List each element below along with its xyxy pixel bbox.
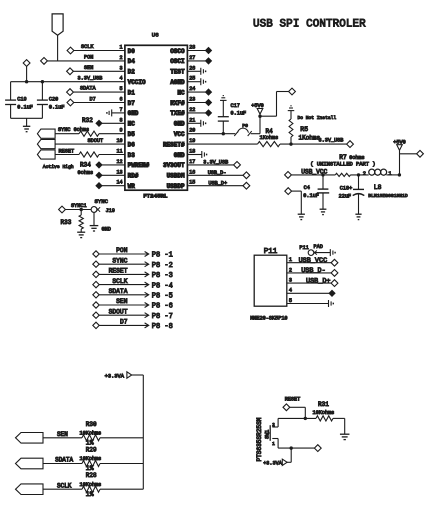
port SCLK flag — [16, 484, 44, 495]
svg-text:0.1uF: 0.1uF — [303, 193, 319, 199]
svg-text:10: 10 — [116, 138, 122, 144]
svg-text:RESET: RESET — [59, 148, 75, 154]
svg-text:P8 -5: P8 -5 — [152, 293, 173, 301]
ground shield — [298, 214, 305, 219]
svg-text:SYNC: SYNC — [95, 198, 109, 205]
svg-text:USB_D-: USB_D- — [301, 267, 325, 275]
svg-text:USB_D+: USB_D+ — [306, 277, 330, 285]
switch SW1 — [256, 417, 278, 461]
svg-text:R5: R5 — [300, 126, 308, 133]
svg-text:13: 13 — [116, 169, 122, 175]
svg-text:SDATA: SDATA — [80, 86, 96, 92]
port SDOUT flag — [37, 138, 103, 149]
resistor R34 — [55, 152, 125, 176]
wire RESET to R31 — [290, 407, 307, 420]
svg-text:RESET: RESET — [285, 396, 301, 402]
wire pin 23 RXF# — [187, 100, 211, 106]
inductor L8 — [363, 169, 408, 199]
ground pin 21 — [187, 120, 205, 127]
svg-text:0.1uF: 0.1uF — [49, 105, 65, 111]
resistor R28 — [43, 472, 143, 498]
svg-text:D4: D4 — [128, 58, 136, 65]
node pin16 USB_D- — [243, 172, 250, 179]
svg-text:26: 26 — [189, 65, 195, 71]
svg-text:20: 20 — [189, 128, 195, 134]
svg-text:1Kohms: 1Kohms — [260, 135, 279, 141]
U6 right pin names — [163, 48, 185, 190]
wire pin 27 OSCI — [187, 58, 211, 64]
svg-text:23: 23 — [189, 97, 195, 103]
svg-text:4: 4 — [120, 76, 123, 82]
node pin17 3.3V_USB — [234, 162, 241, 169]
svg-text:SEN: SEN — [116, 298, 128, 305]
wire SW1 bottom — [278, 446, 315, 462]
svg-text:NC: NC — [128, 121, 136, 128]
svg-text:GND: GND — [102, 227, 111, 233]
ground pin 7 — [107, 109, 125, 116]
svg-text:3.3V_USB: 3.3V_USB — [203, 160, 228, 166]
svg-text:SDOUT: SDOUT — [109, 308, 128, 315]
svg-text:P8 -3: P8 -3 — [152, 272, 173, 280]
svg-text:U6: U6 — [152, 32, 159, 39]
node +5V0 offpage — [289, 88, 296, 95]
resistor R30 — [43, 421, 143, 447]
node SEN — [67, 68, 74, 75]
wire SEN to pin 3 — [73, 65, 125, 71]
wire P11 pin 5 ground — [287, 300, 334, 307]
port SDATA flag — [16, 458, 44, 469]
svg-text:C20: C20 — [49, 97, 58, 103]
power +5V0 — [251, 103, 263, 114]
node pin15 USB_D+ — [243, 182, 250, 189]
wire D7 to pin 6 — [74, 97, 125, 103]
node D7 — [67, 99, 74, 106]
capacitor C19 — [5, 82, 33, 119]
resistor R7 — [335, 154, 364, 176]
svg-text:FT245RL: FT245RL — [143, 193, 168, 200]
connector J19 — [91, 198, 115, 214]
node USB_VCC — [331, 259, 338, 266]
svg-text:1%: 1% — [86, 491, 94, 498]
capacitor C20 — [37, 82, 65, 119]
U6 left pin numbers — [116, 45, 122, 186]
node 3.3V_USB pullup — [347, 141, 354, 148]
svg-text:R30: R30 — [86, 421, 97, 428]
wire J19 to ground — [93, 212, 95, 225]
svg-text:USBDM: USBDM — [167, 173, 185, 180]
svg-text:P11: P11 — [299, 245, 308, 251]
svg-text:SDATA: SDATA — [109, 288, 128, 295]
svg-text:0ohms: 0ohms — [78, 170, 94, 176]
wire pin 12 — [96, 162, 125, 168]
svg-text:GND: GND — [128, 110, 139, 117]
wire RESET# pin 19 — [187, 137, 346, 145]
ground pin 18 — [187, 151, 206, 158]
capacitor C17 — [218, 100, 246, 133]
svg-text:22uF: 22uF — [339, 193, 351, 199]
svg-text:RESET#: RESET# — [163, 141, 185, 148]
svg-text:PTS635SR25SM: PTS635SR25SM — [256, 417, 263, 461]
ground J19 — [90, 226, 111, 233]
port SEN flag — [16, 433, 44, 444]
wire D7 to P8 -8 — [93, 319, 173, 332]
svg-text:R28: R28 — [86, 472, 97, 479]
svg-text:R32: R32 — [82, 117, 93, 124]
svg-text:P8 -2: P8 -2 — [152, 262, 173, 270]
svg-text:SCLK: SCLK — [112, 278, 127, 285]
wire SEN to P8 -6 — [93, 298, 173, 311]
node +5V0 right offpage — [417, 150, 424, 157]
node 3.3V_USB stub — [23, 60, 30, 82]
svg-text:J19: J19 — [106, 208, 115, 214]
svg-text:14: 14 — [116, 180, 122, 186]
resistor R33 — [61, 210, 84, 233]
svg-text:TEST: TEST — [170, 69, 185, 76]
node USB_D- — [331, 270, 338, 277]
svg-text:USB SPI CONTROLER: USB SPI CONTROLER — [253, 19, 366, 31]
wire SDATA to pin 5 — [73, 86, 125, 92]
port RESET flag — [37, 148, 74, 159]
wire cap bottom rail — [11, 118, 43, 126]
svg-text:VCCIO: VCCIO — [128, 79, 146, 86]
svg-text:2: 2 — [363, 171, 366, 177]
ground below R33 — [77, 232, 85, 237]
svg-text:USB_VCC: USB_VCC — [301, 168, 327, 175]
svg-text:D3: D3 — [128, 152, 136, 159]
ground above R5 — [288, 106, 295, 111]
svg-text:28: 28 — [189, 45, 195, 51]
svg-text:GND: GND — [174, 121, 185, 128]
wire SDOUT to P8 -7 — [93, 308, 173, 321]
power +5V0 right — [393, 139, 405, 175]
svg-text:2: 2 — [120, 55, 123, 61]
svg-text:Active High: Active High — [43, 164, 74, 170]
ground below C18 — [355, 214, 361, 219]
svg-text:USB_VCC: USB_VCC — [299, 257, 328, 265]
svg-text:9: 9 — [120, 128, 123, 134]
svg-text:21: 21 — [189, 117, 195, 123]
svg-text:6: 6 — [120, 97, 123, 103]
svg-text:SDOUT: SDOUT — [88, 138, 104, 144]
wire pin 15 USB_D+ — [187, 180, 243, 186]
node PON — [41, 58, 48, 65]
svg-text:+3.3VA: +3.3VA — [105, 374, 125, 380]
resistor R31 — [313, 401, 335, 421]
capacitor C18 — [339, 175, 365, 214]
svg-text:SCLK: SCLK — [81, 44, 94, 50]
svg-text:D2: D2 — [128, 69, 136, 76]
wire pin 17 3.3V_USB — [187, 160, 233, 166]
svg-text:PON: PON — [84, 54, 93, 60]
svg-text:RXF#: RXF# — [170, 100, 185, 107]
label Active High — [43, 164, 74, 170]
svg-text:D7: D7 — [120, 319, 128, 326]
svg-text:OSCI: OSCI — [170, 58, 185, 65]
IC U6 FT245RL body — [125, 32, 187, 200]
svg-text:R4: R4 — [266, 128, 274, 135]
svg-text:1Kohms: 1Kohms — [299, 135, 321, 142]
label Do Not Install — [298, 115, 337, 121]
svg-text:1: 1 — [272, 441, 275, 447]
resistor R5 — [289, 111, 320, 145]
svg-text:1: 1 — [388, 171, 391, 177]
svg-text:C19: C19 — [17, 97, 26, 103]
svg-text:D7: D7 — [90, 97, 96, 103]
wire R31 top line — [278, 418, 345, 434]
wire +5V0 right branch — [400, 153, 417, 155]
connector shield stack — [52, 14, 63, 61]
node shield stub — [285, 188, 292, 195]
svg-text:C4: C4 — [304, 185, 310, 191]
P11 pin numbers — [289, 257, 292, 304]
wire PON to pin 2 — [47, 54, 125, 61]
svg-text:10Kohms: 10Kohms — [313, 410, 335, 416]
wire pin 8 NC — [96, 120, 125, 126]
svg-text:PWREN#: PWREN# — [128, 162, 150, 169]
svg-text:D0: D0 — [128, 48, 136, 55]
svg-text:SEN: SEN — [57, 431, 68, 438]
svg-text:D7: D7 — [128, 100, 136, 107]
wire SDOUT to pin 10 — [55, 143, 125, 145]
svg-text:R29: R29 — [86, 447, 97, 454]
connector P11 body — [250, 248, 287, 321]
svg-text:P9: P9 — [242, 123, 248, 129]
wire RESET to P8 -3 — [93, 268, 173, 281]
title USB SPI CONTROLER — [253, 19, 366, 31]
wire pin 28 OSCO — [187, 48, 211, 54]
U6 left pin names — [128, 48, 150, 190]
node SCLK — [67, 47, 74, 54]
svg-text:15: 15 — [189, 180, 195, 186]
power +3.3VA sw — [263, 459, 287, 467]
svg-text:AGND: AGND — [170, 79, 185, 86]
ground below R31 — [340, 434, 350, 439]
svg-text:P8 -6: P8 -6 — [152, 303, 173, 311]
label uninstalled part — [310, 160, 375, 167]
svg-text:TXE#: TXE# — [170, 110, 185, 117]
svg-text:D5: D5 — [128, 131, 136, 138]
svg-text:12: 12 — [116, 159, 122, 165]
svg-text:10Kohms: 10Kohms — [80, 430, 102, 436]
svg-text:1: 1 — [120, 45, 123, 51]
svg-text:24: 24 — [189, 86, 195, 92]
svg-text:25: 25 — [189, 76, 195, 82]
svg-text:SDATA: SDATA — [55, 457, 73, 464]
svg-text:3.3V_USB: 3.3V_USB — [78, 75, 103, 81]
svg-text:P8 -8: P8 -8 — [152, 323, 173, 331]
wire +5V0 branch — [258, 92, 289, 118]
svg-text:MNE20-SK5P10: MNE20-SK5P10 — [250, 316, 287, 322]
svg-text:10Kohms: 10Kohms — [80, 456, 102, 462]
jumper P9 — [234, 123, 251, 136]
svg-text:16: 16 — [189, 169, 195, 175]
svg-text:BLM18EG601SN1D: BLM18EG601SN1D — [368, 193, 408, 199]
node SYNC1 — [59, 203, 87, 213]
svg-text:PON: PON — [116, 247, 128, 254]
wire pin 16 USB_D- — [187, 170, 243, 176]
wire VCC pin 20 — [187, 114, 260, 135]
power +3.3VA rail — [105, 372, 144, 489]
wire pin 13 — [96, 172, 125, 178]
svg-text:USB_D-: USB_D- — [208, 170, 227, 176]
svg-text:1%: 1% — [86, 439, 94, 446]
wire P11 pin 4 — [287, 290, 335, 296]
svg-text:3: 3 — [120, 65, 123, 71]
wire P11 pin 1 USB_VCC — [287, 257, 332, 265]
svg-text:SYNC: SYNC — [112, 257, 127, 264]
svg-text:WR: WR — [128, 183, 136, 190]
svg-text:22: 22 — [189, 107, 195, 113]
svg-text:Do Not Install: Do Not Install — [298, 115, 337, 121]
svg-text:10Kohms: 10Kohms — [80, 482, 102, 488]
svg-text:PAD: PAD — [314, 244, 323, 250]
svg-text:USBDP: USBDP — [167, 183, 185, 190]
node SW1 out — [314, 445, 321, 452]
node USB_VCC offpage — [285, 172, 292, 179]
svg-text:27: 27 — [189, 55, 195, 61]
svg-text:RD#: RD# — [128, 173, 139, 180]
svg-text:SEN: SEN — [84, 65, 93, 71]
node SDATA — [67, 89, 74, 96]
svg-text:VCC: VCC — [174, 131, 185, 138]
svg-text:USB_D+: USB_D+ — [208, 180, 227, 186]
svg-text:SYNC1: SYNC1 — [71, 203, 87, 209]
port SYNC flag — [37, 127, 89, 138]
wire 3.3V_USB to pin 4 — [11, 75, 125, 83]
svg-text:SCLK: SCLK — [57, 482, 72, 489]
wire pin 14 — [96, 183, 125, 189]
svg-text:17: 17 — [189, 159, 195, 165]
svg-text:0.1uF: 0.1uF — [17, 105, 33, 111]
svg-text:R34: R34 — [80, 162, 91, 169]
wire SDATA to P8 -5 — [93, 288, 173, 301]
svg-text:GND: GND — [174, 152, 185, 159]
svg-text:R31: R31 — [318, 401, 329, 408]
svg-text:P8 -7: P8 -7 — [152, 313, 173, 321]
wire SYNC to P8 -2 — [93, 257, 173, 270]
capacitor C4 — [303, 175, 329, 209]
ground below C4 — [320, 209, 327, 214]
svg-text:P8 -4: P8 -4 — [152, 282, 173, 290]
wire SCLK to P8 -4 — [93, 278, 173, 291]
svg-text:C17: C17 — [231, 103, 240, 109]
ground above C17 — [220, 96, 227, 101]
svg-text:3V3OUT: 3V3OUT — [163, 162, 185, 169]
wire shield to ground — [291, 191, 301, 214]
svg-text:D6: D6 — [128, 141, 136, 148]
wire SYNC1 to J19 — [65, 208, 91, 211]
svg-text:11: 11 — [116, 149, 122, 155]
svg-text:8: 8 — [120, 117, 123, 123]
svg-text:NC: NC — [177, 89, 185, 96]
svg-text:+3.3VA: +3.3VA — [263, 461, 283, 467]
resistor R32 — [55, 117, 125, 136]
U6 right pin numbers — [189, 45, 195, 186]
wire USB_VCC line — [291, 168, 401, 176]
P11 PAD pin — [299, 244, 335, 256]
svg-text:P8 -1: P8 -1 — [152, 252, 173, 260]
wire pin 24 NC — [187, 89, 211, 95]
wire P11 pin 3 USB_D+ — [287, 277, 332, 285]
svg-text:D1: D1 — [128, 89, 136, 96]
wire PON to P8 -1 — [93, 247, 173, 260]
svg-text:L8: L8 — [374, 184, 382, 191]
svg-text:18: 18 — [189, 149, 195, 155]
ground pin 26 — [187, 68, 205, 75]
svg-text:3.3V_USB: 3.3V_USB — [319, 137, 344, 143]
svg-text:19: 19 — [189, 138, 195, 144]
wire P11 pin 2 USB_D- — [287, 267, 332, 275]
resistor R29 — [43, 447, 143, 473]
svg-text:P11: P11 — [264, 248, 278, 256]
node USB_D+ — [331, 280, 338, 287]
svg-text:R33: R33 — [61, 219, 72, 226]
wire pin 22 TXE# — [187, 110, 211, 116]
node RESET sw — [283, 396, 300, 410]
svg-text:C18+: C18+ — [340, 185, 352, 191]
svg-text:0.1uF: 0.1uF — [231, 111, 247, 117]
ground pin 25 — [187, 78, 205, 85]
svg-text:SYNC 0ohms: SYNC 0ohms — [58, 127, 89, 133]
svg-text:OSCO: OSCO — [170, 48, 185, 55]
svg-text:( UNINSTALLED PART ): ( UNINSTALLED PART ) — [310, 160, 375, 167]
svg-text:SW1: SW1 — [265, 430, 271, 439]
svg-text:RESET: RESET — [109, 268, 128, 275]
svg-text:2: 2 — [272, 422, 275, 428]
wire SCLK to pin 1 — [74, 44, 125, 50]
ground below C19 C20 — [23, 126, 30, 131]
svg-text:5: 5 — [120, 86, 123, 92]
svg-text:1%: 1% — [86, 465, 94, 472]
svg-text:7: 7 — [120, 107, 123, 113]
resistor R4 — [258, 128, 281, 147]
